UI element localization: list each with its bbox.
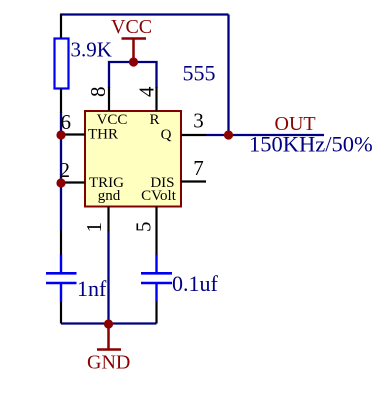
svg-text:1nf: 1nf bbox=[77, 276, 107, 301]
op-amp U1 555 body bbox=[85, 111, 181, 207]
VCC power symbol bbox=[111, 16, 152, 62]
svg-text:0.1uf: 0.1uf bbox=[172, 271, 219, 296]
wire pin1 to gnd bbox=[107, 231, 109, 324]
svg-text:6: 6 bbox=[61, 110, 72, 134]
resistor R1 body bbox=[55, 39, 69, 89]
pin 1 bbox=[107, 207, 109, 232]
svg-text:VCC: VCC bbox=[111, 16, 152, 38]
pin 6 bbox=[61, 133, 85, 135]
junction dot pin6 bbox=[56, 130, 65, 139]
junction dot at VCC bbox=[129, 57, 138, 66]
wire vcc box bbox=[109, 62, 157, 88]
capacitor C1 1nf bbox=[46, 255, 77, 303]
svg-text:GND: GND bbox=[87, 352, 130, 374]
pin 8 bbox=[108, 87, 110, 111]
pin 4 bbox=[155, 87, 157, 111]
pin 3 bbox=[181, 134, 206, 136]
wire right vertical bbox=[227, 15, 229, 136]
capacitor C1 pin top bbox=[60, 231, 62, 256]
svg-text:Q: Q bbox=[161, 127, 172, 143]
svg-text:2: 2 bbox=[60, 158, 71, 182]
svg-text:R: R bbox=[149, 112, 159, 128]
pin 2 bbox=[61, 181, 85, 183]
wire bottom horizontal bbox=[61, 322, 157, 324]
capacitor C2 pin top bbox=[155, 231, 157, 255]
svg-text:7: 7 bbox=[193, 156, 204, 180]
svg-text:THR: THR bbox=[88, 127, 118, 143]
junction dot GND bbox=[104, 319, 113, 328]
junction dot OUT bbox=[224, 130, 233, 139]
capacitor C2 pin bottom bbox=[155, 302, 157, 324]
GND power symbol bbox=[87, 324, 130, 374]
wire OUT horizontal bbox=[206, 134, 324, 136]
capacitor C1 pin bottom bbox=[60, 302, 62, 324]
svg-text:3: 3 bbox=[193, 109, 204, 133]
junction dot pin2 bbox=[56, 178, 65, 187]
wire left vertical bbox=[60, 113, 62, 231]
svg-text:150KHz/50%: 150KHz/50% bbox=[249, 132, 373, 157]
svg-text:8: 8 bbox=[86, 87, 110, 98]
svg-text:1: 1 bbox=[82, 222, 106, 233]
svg-text:gnd: gnd bbox=[98, 188, 121, 204]
svg-text:3.9K: 3.9K bbox=[71, 38, 112, 62]
pin 7 bbox=[181, 180, 206, 182]
capacitor C2 0.1uf bbox=[141, 255, 172, 303]
svg-text:5: 5 bbox=[132, 222, 156, 233]
svg-text:4: 4 bbox=[135, 86, 159, 97]
svg-text:555: 555 bbox=[183, 61, 216, 86]
resistor R1 pin top bbox=[60, 14, 62, 40]
svg-text:CVolt: CVolt bbox=[141, 188, 177, 204]
resistor R1 pin bottom bbox=[60, 89, 62, 114]
pin 5 bbox=[155, 207, 157, 232]
wire top horizontal bbox=[61, 13, 229, 15]
